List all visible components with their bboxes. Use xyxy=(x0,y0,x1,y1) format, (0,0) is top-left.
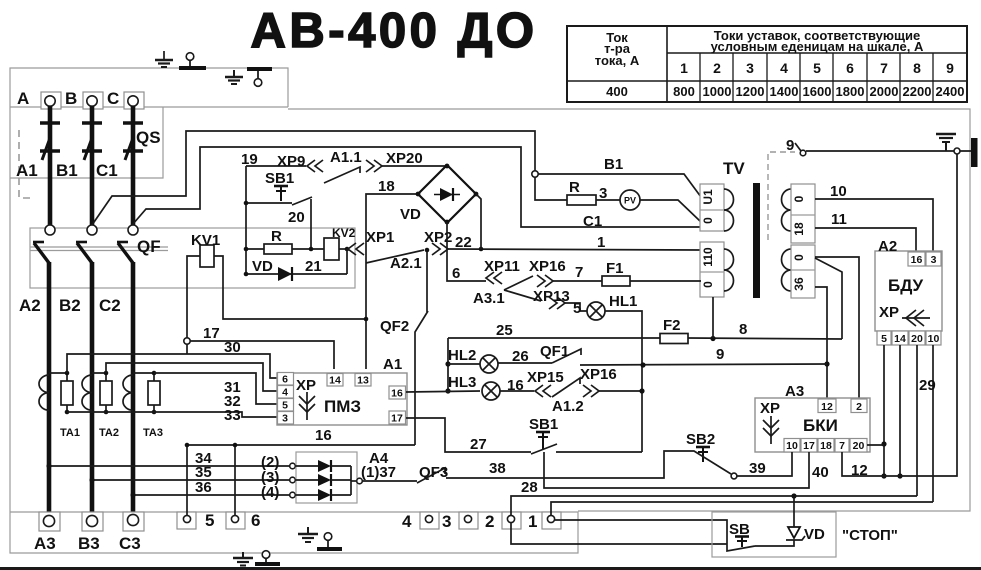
svg-text:5: 5 xyxy=(205,511,214,530)
bottom terminal A3 xyxy=(39,512,60,531)
svg-text:B: B xyxy=(65,89,77,108)
wire TV-0 diagonal to wire8 xyxy=(815,258,842,339)
BDU pin 5 xyxy=(877,331,891,345)
svg-text:ПМЗ: ПМЗ xyxy=(324,397,361,416)
node open circle on B1 riser xyxy=(532,171,538,177)
PMZ pin 16 xyxy=(389,386,406,400)
svg-text:9: 9 xyxy=(716,346,724,363)
svg-text:40: 40 xyxy=(812,464,829,481)
bottom terminal 4 xyxy=(420,512,439,529)
wire TV-0 to BKI pin2 xyxy=(815,257,859,398)
wire 18 bridge to PMZ pin13 xyxy=(364,192,421,369)
earthing contact circle right xyxy=(954,148,960,154)
svg-text:TA2: TA2 xyxy=(99,427,119,439)
wire TV-36 to BKI pin12 xyxy=(815,287,830,398)
svg-text:1600: 1600 xyxy=(803,84,832,99)
TV primary terminal strip lower xyxy=(700,242,724,297)
svg-text:A3: A3 xyxy=(785,383,804,400)
ground symbol bottom-left pair xyxy=(298,527,318,542)
wire 10 xyxy=(815,199,933,252)
wire 33 TA commons to PMZ pin3 xyxy=(67,412,277,417)
svg-text:12: 12 xyxy=(821,401,833,413)
svg-text:F1: F1 xyxy=(606,260,624,277)
svg-text:4: 4 xyxy=(402,512,412,531)
terminal C xyxy=(124,92,144,109)
contact A2.1 blade xyxy=(366,250,424,263)
PMZ pin 6 xyxy=(278,373,294,386)
svg-text:тока, А: тока, А xyxy=(595,53,640,68)
breaker QF pole C blade xyxy=(117,242,133,263)
svg-text:QS: QS xyxy=(136,128,161,147)
svg-text:C3: C3 xyxy=(119,534,141,553)
svg-text:A3.1: A3.1 xyxy=(473,290,505,307)
svg-text:F2: F2 xyxy=(663,317,681,334)
wire terminal2 down to stop loop xyxy=(511,523,727,544)
BKI pin 18 xyxy=(818,439,834,453)
wire KV1 to wire30 xyxy=(186,344,188,354)
pushbutton SB1 upper xyxy=(244,170,312,205)
wire BKI pin17 wire 40 xyxy=(544,452,809,488)
ground symbol bottom-center xyxy=(233,552,253,566)
connector XP16 arrows lower xyxy=(583,385,599,397)
svg-text:XP16: XP16 xyxy=(580,366,617,383)
terminal B xyxy=(83,92,103,109)
TV primary terminal strip upper xyxy=(700,184,724,231)
svg-text:XP20: XP20 xyxy=(386,150,423,167)
wire 7 with fuse F1 xyxy=(553,276,701,286)
svg-text:(1)37: (1)37 xyxy=(361,464,396,481)
svg-text:XP9: XP9 xyxy=(277,153,305,170)
svg-text:TA1: TA1 xyxy=(60,427,80,439)
BKI pin 20 xyxy=(850,439,867,453)
svg-text:21: 21 xyxy=(305,258,322,275)
phase bus B2 xyxy=(90,262,95,516)
breaker QF pole B blade xyxy=(76,242,92,263)
lamp HL1 xyxy=(587,302,605,320)
svg-text:KV2: KV2 xyxy=(332,226,356,240)
svg-text:ХР: ХР xyxy=(879,304,899,321)
outer grey frame right xyxy=(288,109,970,511)
svg-text:B1: B1 xyxy=(56,161,78,180)
wire BDU pin20 down to wire28 xyxy=(916,345,918,496)
relay coil KV1 xyxy=(187,245,366,338)
svg-text:A2: A2 xyxy=(878,238,897,255)
diode A4-2 xyxy=(295,474,351,486)
terminal A xyxy=(41,92,61,109)
svg-text:39: 39 xyxy=(749,460,766,477)
TV secondary winding upper xyxy=(782,189,792,231)
svg-text:2400: 2400 xyxy=(936,84,965,99)
svg-text:6: 6 xyxy=(452,265,460,282)
svg-text:5: 5 xyxy=(573,300,581,317)
svg-text:PV: PV xyxy=(624,196,636,206)
connector XP13 arrows xyxy=(549,297,565,309)
BDU pin 16 xyxy=(908,252,925,266)
svg-text:1: 1 xyxy=(597,234,605,251)
BKI pin 12 xyxy=(818,399,836,413)
svg-text:400: 400 xyxy=(606,84,628,99)
svg-text:16: 16 xyxy=(911,254,923,266)
lamp HL2 xyxy=(445,338,498,394)
PMZ pin 13 xyxy=(355,374,371,387)
settings table xyxy=(567,26,967,102)
svg-text:TV: TV xyxy=(723,159,745,178)
rectifier bridge VD xyxy=(418,164,478,225)
disconnector QS pole A xyxy=(40,106,60,226)
svg-text:(4): (4) xyxy=(261,484,279,501)
phase bus A2 xyxy=(47,262,52,516)
svg-text:C1: C1 xyxy=(583,213,602,230)
svg-text:R: R xyxy=(569,179,580,196)
svg-text:БКИ: БКИ xyxy=(803,416,838,435)
wire XP20 to bridge top xyxy=(382,165,447,167)
svg-text:8: 8 xyxy=(739,321,747,338)
svg-text:HL3: HL3 xyxy=(448,374,476,391)
diode A4-1 xyxy=(295,460,351,472)
BDU pin 20 xyxy=(909,331,925,345)
TV primary winding upper xyxy=(724,189,734,231)
svg-text:XP2: XP2 xyxy=(424,229,452,246)
breaker aux QF1 blade xyxy=(552,349,827,368)
wire 11 xyxy=(815,228,916,252)
svg-text:A3: A3 xyxy=(34,534,56,553)
svg-text:A1: A1 xyxy=(16,161,38,180)
wire 30 TA1 secondary to PMZ pin6 xyxy=(67,354,277,378)
bottom terminal 2 xyxy=(502,512,521,529)
wire BKI pin7 to node 12 xyxy=(842,452,884,476)
connector XP1 arrows xyxy=(348,243,364,255)
svg-text:2: 2 xyxy=(713,60,721,76)
svg-text:SB2: SB2 xyxy=(686,431,715,448)
wire 31 TA2 secondary to PMZ pin4 xyxy=(106,363,277,391)
wire bridge minus to node 22 xyxy=(476,194,481,249)
svg-text:20: 20 xyxy=(911,333,923,345)
BKI XP connector symbol xyxy=(760,400,780,444)
contact A1.2 blade xyxy=(552,378,580,397)
svg-text:QF1: QF1 xyxy=(540,343,569,360)
svg-text:5: 5 xyxy=(813,60,821,76)
TV secondary winding lower xyxy=(782,249,792,291)
svg-text:"СТОП": "СТОП" xyxy=(842,527,898,544)
earthing knife bottom-left xyxy=(317,533,342,549)
wire terminal5 to wire16 xyxy=(186,445,188,515)
resistor R right xyxy=(567,195,596,205)
svg-text:8: 8 xyxy=(913,60,921,76)
QF grey box xyxy=(30,228,355,288)
svg-text:7: 7 xyxy=(839,440,845,452)
disconnector QS pole B xyxy=(82,106,102,226)
connector XP11 arrows xyxy=(486,272,502,284)
wire 38 xyxy=(470,451,691,478)
diode VD stop xyxy=(784,493,805,546)
node 17 open circle xyxy=(184,338,190,344)
BDU pin 3 xyxy=(926,252,941,266)
svg-text:A1.2: A1.2 xyxy=(552,398,584,415)
pushbutton SB stop xyxy=(727,521,784,551)
ground symbol top-2 xyxy=(225,70,243,84)
svg-text:7: 7 xyxy=(880,60,888,76)
svg-text:12: 12 xyxy=(851,462,868,479)
A4 output bus xyxy=(350,466,352,495)
connector XP15 arrows xyxy=(535,385,551,397)
svg-text:5: 5 xyxy=(282,400,288,412)
svg-text:БДУ: БДУ xyxy=(888,276,924,295)
BDU XP connector symbol xyxy=(879,304,930,326)
svg-text:A2: A2 xyxy=(19,296,41,315)
svg-text:B1: B1 xyxy=(604,156,623,173)
switch 9 xyxy=(795,143,806,156)
svg-text:1200: 1200 xyxy=(736,84,765,99)
TV primary winding lower xyxy=(724,249,734,291)
svg-text:0: 0 xyxy=(701,217,715,224)
svg-text:ХР: ХР xyxy=(296,377,316,394)
PMZ pin 5 xyxy=(278,399,294,412)
svg-text:29: 29 xyxy=(919,377,936,394)
wire BDU pin10 down to wire502 xyxy=(932,345,934,502)
svg-text:XP15: XP15 xyxy=(527,369,564,386)
svg-text:110: 110 xyxy=(701,247,715,267)
svg-text:18: 18 xyxy=(792,222,806,236)
svg-text:36: 36 xyxy=(792,277,806,291)
wire 22/1 to TV 110 xyxy=(448,247,700,252)
stop box grey xyxy=(712,512,836,557)
TV secondary terminal strip upper xyxy=(791,184,815,243)
svg-text:A1: A1 xyxy=(383,356,402,373)
svg-text:XP1: XP1 xyxy=(366,229,394,246)
dashed outline left xyxy=(19,130,32,198)
dashed box around TV secondary upper xyxy=(768,152,795,240)
bottom terminal C3 xyxy=(123,512,144,531)
diode VD lower loop xyxy=(244,249,347,281)
BDU pin 14 xyxy=(892,331,908,345)
svg-text:A2.1: A2.1 xyxy=(390,255,422,272)
phase bus C2 xyxy=(131,262,136,516)
breaker aux QF2 xyxy=(415,248,429,445)
wire from QS pole C to node C1 top xyxy=(133,147,701,227)
svg-text:6: 6 xyxy=(282,374,288,386)
wire 27 from PMZ pin17 xyxy=(406,418,531,452)
svg-text:9: 9 xyxy=(786,137,794,154)
svg-text:4: 4 xyxy=(780,60,788,76)
svg-text:3: 3 xyxy=(931,254,937,266)
wire B1 xyxy=(538,174,701,197)
wire PV to TV U1-0 xyxy=(640,200,701,222)
svg-text:R: R xyxy=(271,228,282,245)
breaker QF pole A pivot xyxy=(45,225,55,235)
BDU pin 10 xyxy=(926,331,941,345)
wire 25 F2 8 xyxy=(448,334,842,344)
svg-text:A1.1: A1.1 xyxy=(330,149,362,166)
wire XP13 to HL1 xyxy=(565,303,587,311)
resistor R left xyxy=(244,244,324,254)
svg-text:0: 0 xyxy=(792,254,806,261)
svg-text:3: 3 xyxy=(282,413,288,425)
svg-text:условным еденицам на шкале, А: условным еденицам на шкале, А xyxy=(711,39,924,54)
svg-text:1: 1 xyxy=(528,512,537,531)
svg-text:XP11: XP11 xyxy=(484,258,520,275)
module A1 PMZ box xyxy=(277,373,407,425)
BKI pin 17 xyxy=(801,439,817,453)
wire 20 vertical xyxy=(310,199,312,249)
bottom terminal 1 xyxy=(542,512,561,529)
svg-text:7: 7 xyxy=(575,264,583,281)
svg-text:20: 20 xyxy=(288,209,305,226)
svg-text:9: 9 xyxy=(946,60,954,76)
svg-text:QF3: QF3 xyxy=(419,464,448,481)
svg-text:SB1: SB1 xyxy=(529,416,558,433)
svg-text:10: 10 xyxy=(786,440,798,452)
svg-text:14: 14 xyxy=(329,375,341,387)
svg-text:16: 16 xyxy=(391,388,403,400)
connector XP2 arrows xyxy=(432,243,448,255)
earthing knife SB top-2 xyxy=(247,69,272,86)
PMZ pin 14 xyxy=(327,374,343,387)
svg-text:25: 25 xyxy=(496,322,513,339)
svg-text:33: 33 xyxy=(224,407,241,424)
wire 9-switch to ground xyxy=(806,150,972,152)
svg-text:2: 2 xyxy=(856,401,862,413)
wire HL1 to vertical 642 xyxy=(605,311,642,452)
svg-text:XP16: XP16 xyxy=(529,258,566,275)
svg-text:14: 14 xyxy=(894,333,906,345)
bottom terminal 6 xyxy=(226,512,245,529)
QS grey box xyxy=(10,107,163,178)
TV core xyxy=(753,183,760,298)
breaker QF pole A blade xyxy=(33,242,49,263)
svg-text:VD: VD xyxy=(400,206,421,223)
wire 37 output xyxy=(351,478,417,484)
outer grey frame left xyxy=(10,68,578,553)
svg-text:28: 28 xyxy=(521,479,538,496)
connector XP9 arrows xyxy=(307,160,323,172)
diode A4-3 xyxy=(295,489,351,501)
svg-text:6: 6 xyxy=(846,60,854,76)
bottom terminal B3 xyxy=(82,512,103,531)
breaker aux QF3 blade xyxy=(417,468,470,483)
PMZ pin 3 xyxy=(278,412,294,425)
module A3 BKI box xyxy=(755,398,870,452)
BKI pin 7 xyxy=(835,439,849,453)
PMZ pin 4 xyxy=(278,386,294,399)
pushbutton SB2 xyxy=(686,431,737,479)
svg-text:HL1: HL1 xyxy=(609,293,637,310)
svg-text:VD: VD xyxy=(804,526,825,543)
svg-text:C: C xyxy=(107,89,119,108)
voltmeter PV xyxy=(620,190,640,210)
svg-text:10: 10 xyxy=(830,183,847,200)
svg-text:TA3: TA3 xyxy=(143,427,163,439)
BKI pin 10 xyxy=(784,439,800,453)
contact A3.1 blades xyxy=(504,276,541,301)
wire 34 xyxy=(46,463,295,469)
svg-text:SB1: SB1 xyxy=(265,170,294,187)
wire ground bus right vertical xyxy=(884,154,957,476)
svg-text:QF2: QF2 xyxy=(380,318,409,335)
svg-text:0: 0 xyxy=(792,195,806,202)
wire BKI pin10 wire 39 xyxy=(737,452,792,476)
svg-text:6: 6 xyxy=(251,511,260,530)
wire 16 bus xyxy=(185,443,415,448)
earthing knife SB top-1 xyxy=(179,53,206,68)
wire XP16 to vertical 642 xyxy=(599,388,645,393)
svg-text:27: 27 xyxy=(470,436,487,453)
svg-text:B3: B3 xyxy=(78,534,100,553)
svg-text:16: 16 xyxy=(315,427,332,444)
wire HL2 to QF1 xyxy=(498,362,552,364)
wire 32 TA3 secondary to PMZ pin5 xyxy=(154,373,277,404)
ground symbol top-1 xyxy=(155,51,173,67)
current transformer TA1 xyxy=(39,371,73,415)
breaker QF pole C pivot xyxy=(128,225,138,235)
contact A1.1 blade xyxy=(324,167,360,183)
wire HL3 to XP15 xyxy=(500,390,534,392)
wire 36 xyxy=(130,492,295,498)
wire BDU pin5 down xyxy=(881,345,886,479)
wire 19 loop left vertical xyxy=(245,166,247,274)
bottom terminal 5 xyxy=(177,512,196,529)
svg-text:C2: C2 xyxy=(99,296,121,315)
svg-text:1000: 1000 xyxy=(703,84,732,99)
bottom terminal 3 xyxy=(459,512,478,529)
connector XP20 arrows xyxy=(366,160,382,172)
svg-text:3: 3 xyxy=(442,512,451,531)
PMZ pin 17 xyxy=(389,411,406,425)
connector XP16 arrows upper xyxy=(537,275,553,287)
current transformer TA2 xyxy=(82,371,112,415)
svg-text:2200: 2200 xyxy=(903,84,932,99)
lamp HL3 xyxy=(406,382,500,400)
wire terminal1 to BDU pin10 xyxy=(551,502,933,516)
PMZ XP connector symbol xyxy=(296,377,316,420)
wire 35 xyxy=(89,477,295,483)
earthing knife bottom-center xyxy=(255,551,280,564)
svg-text:XP13: XP13 xyxy=(533,288,570,305)
svg-text:10: 10 xyxy=(928,333,940,345)
breaker QF pole B pivot xyxy=(87,225,97,235)
svg-text:5: 5 xyxy=(881,333,887,345)
svg-text:HL2: HL2 xyxy=(448,347,476,364)
wire BDU pin14 down xyxy=(897,345,902,479)
svg-text:800: 800 xyxy=(673,84,695,99)
svg-text:0: 0 xyxy=(701,281,715,288)
relay coil KV2 xyxy=(324,238,349,260)
wire 19 top to XP9 xyxy=(246,165,306,167)
svg-text:ХР: ХР xyxy=(760,400,780,417)
svg-text:20: 20 xyxy=(853,440,865,452)
svg-text:B2: B2 xyxy=(59,296,81,315)
wire R to PV xyxy=(596,199,620,201)
disconnector QS pole C xyxy=(123,106,143,226)
svg-text:АВ-400 ДО: АВ-400 ДО xyxy=(251,4,538,58)
svg-text:KV1: KV1 xyxy=(191,232,220,249)
svg-text:3: 3 xyxy=(746,60,754,76)
wire to resistor R right xyxy=(535,177,567,200)
svg-text:1800: 1800 xyxy=(836,84,865,99)
bottom image border line xyxy=(0,567,981,570)
BKI pin 2 xyxy=(851,399,867,413)
pushbutton SB1 lower xyxy=(529,416,642,454)
svg-text:U1: U1 xyxy=(701,189,715,205)
svg-text:VD: VD xyxy=(252,258,273,275)
earthing bar right xyxy=(971,138,978,167)
module A2 BDU box xyxy=(875,251,942,331)
svg-text:4: 4 xyxy=(282,387,288,399)
svg-text:13: 13 xyxy=(357,375,369,387)
wire TV primary lower 0 down to wire8 xyxy=(712,297,714,338)
TV secondary terminal strip lower xyxy=(791,245,815,298)
svg-text:2000: 2000 xyxy=(870,84,899,99)
ground symbol right xyxy=(936,134,956,151)
